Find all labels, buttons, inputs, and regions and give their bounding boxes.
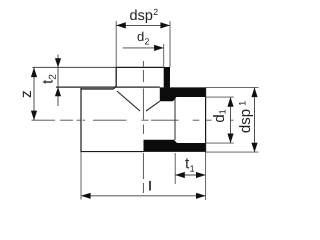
left transition diagonal — [117, 91, 140, 111]
arrowhead d2 right — [154, 45, 164, 51]
dimension line d2 — [123, 47, 164, 49]
ext line d1 bottom — [206, 142, 234, 144]
body bottom edge left — [81, 151, 144, 153]
horizontal centerline — [32, 119, 234, 121]
body top edge — [81, 88, 114, 90]
arrowhead l right — [196, 193, 206, 199]
dimension line dsp2 — [116, 24, 170, 26]
arrowhead l left — [81, 193, 91, 199]
dimension line t1 — [175, 174, 205, 176]
ext line d1 top — [206, 96, 234, 98]
dimension line d1 — [230, 97, 232, 143]
body end face right — [205, 87, 207, 152]
ext line dsp2 right — [169, 21, 171, 67]
label l — [149, 181, 151, 191]
vertical centerline — [142, 61, 144, 193]
arrowhead t2 lower (points up) — [55, 87, 61, 96]
chamfer at branch base — [114, 86, 117, 89]
branch top edge — [116, 66, 164, 68]
ext line dsp1 top — [206, 86, 259, 88]
arrowhead d1 top — [227, 97, 233, 107]
dimension line t2 — [57, 55, 59, 107]
section wall upper black — [160, 67, 206, 101]
arrowhead t1 left — [175, 172, 185, 178]
label z — [23, 91, 31, 97]
label t2 — [43, 75, 56, 84]
ext line l right — [205, 152, 207, 200]
branch left wall — [115, 67, 117, 87]
arrowhead z bottom — [31, 111, 37, 121]
arrowhead t2 upper (points down) — [55, 58, 61, 67]
ext line dsp1 bottom — [206, 151, 259, 153]
top extension line — [33, 66, 117, 68]
ext line t1 — [174, 153, 176, 184]
section wall lower black — [144, 140, 206, 152]
right transition diagonal — [146, 101, 160, 111]
dimension line dsp1 — [254, 88, 256, 153]
dimension line l — [81, 195, 206, 197]
arrowhead dsp2 right — [160, 22, 170, 28]
arrowhead dsp1 bottom — [251, 143, 257, 153]
label dsp2 — [130, 9, 158, 23]
dimension line z — [33, 68, 35, 121]
label t1 — [185, 158, 194, 171]
label d1 — [213, 110, 225, 122]
arrowhead dsp1 top — [251, 88, 257, 98]
body left face — [80, 88, 82, 152]
arrowhead d1 bottom — [227, 134, 233, 144]
ext line dsp2 left — [115, 21, 117, 67]
label dsp1 — [239, 101, 253, 132]
shoulder line — [56, 86, 160, 88]
ext line l left — [80, 152, 82, 200]
arrowhead dsp2 left — [116, 22, 126, 28]
arrowhead z top — [31, 68, 37, 78]
socket bottom line across bore — [174, 98, 176, 141]
label d2 — [138, 32, 150, 45]
arrowhead t1 right — [196, 172, 206, 178]
ext line d2 — [163, 44, 165, 68]
